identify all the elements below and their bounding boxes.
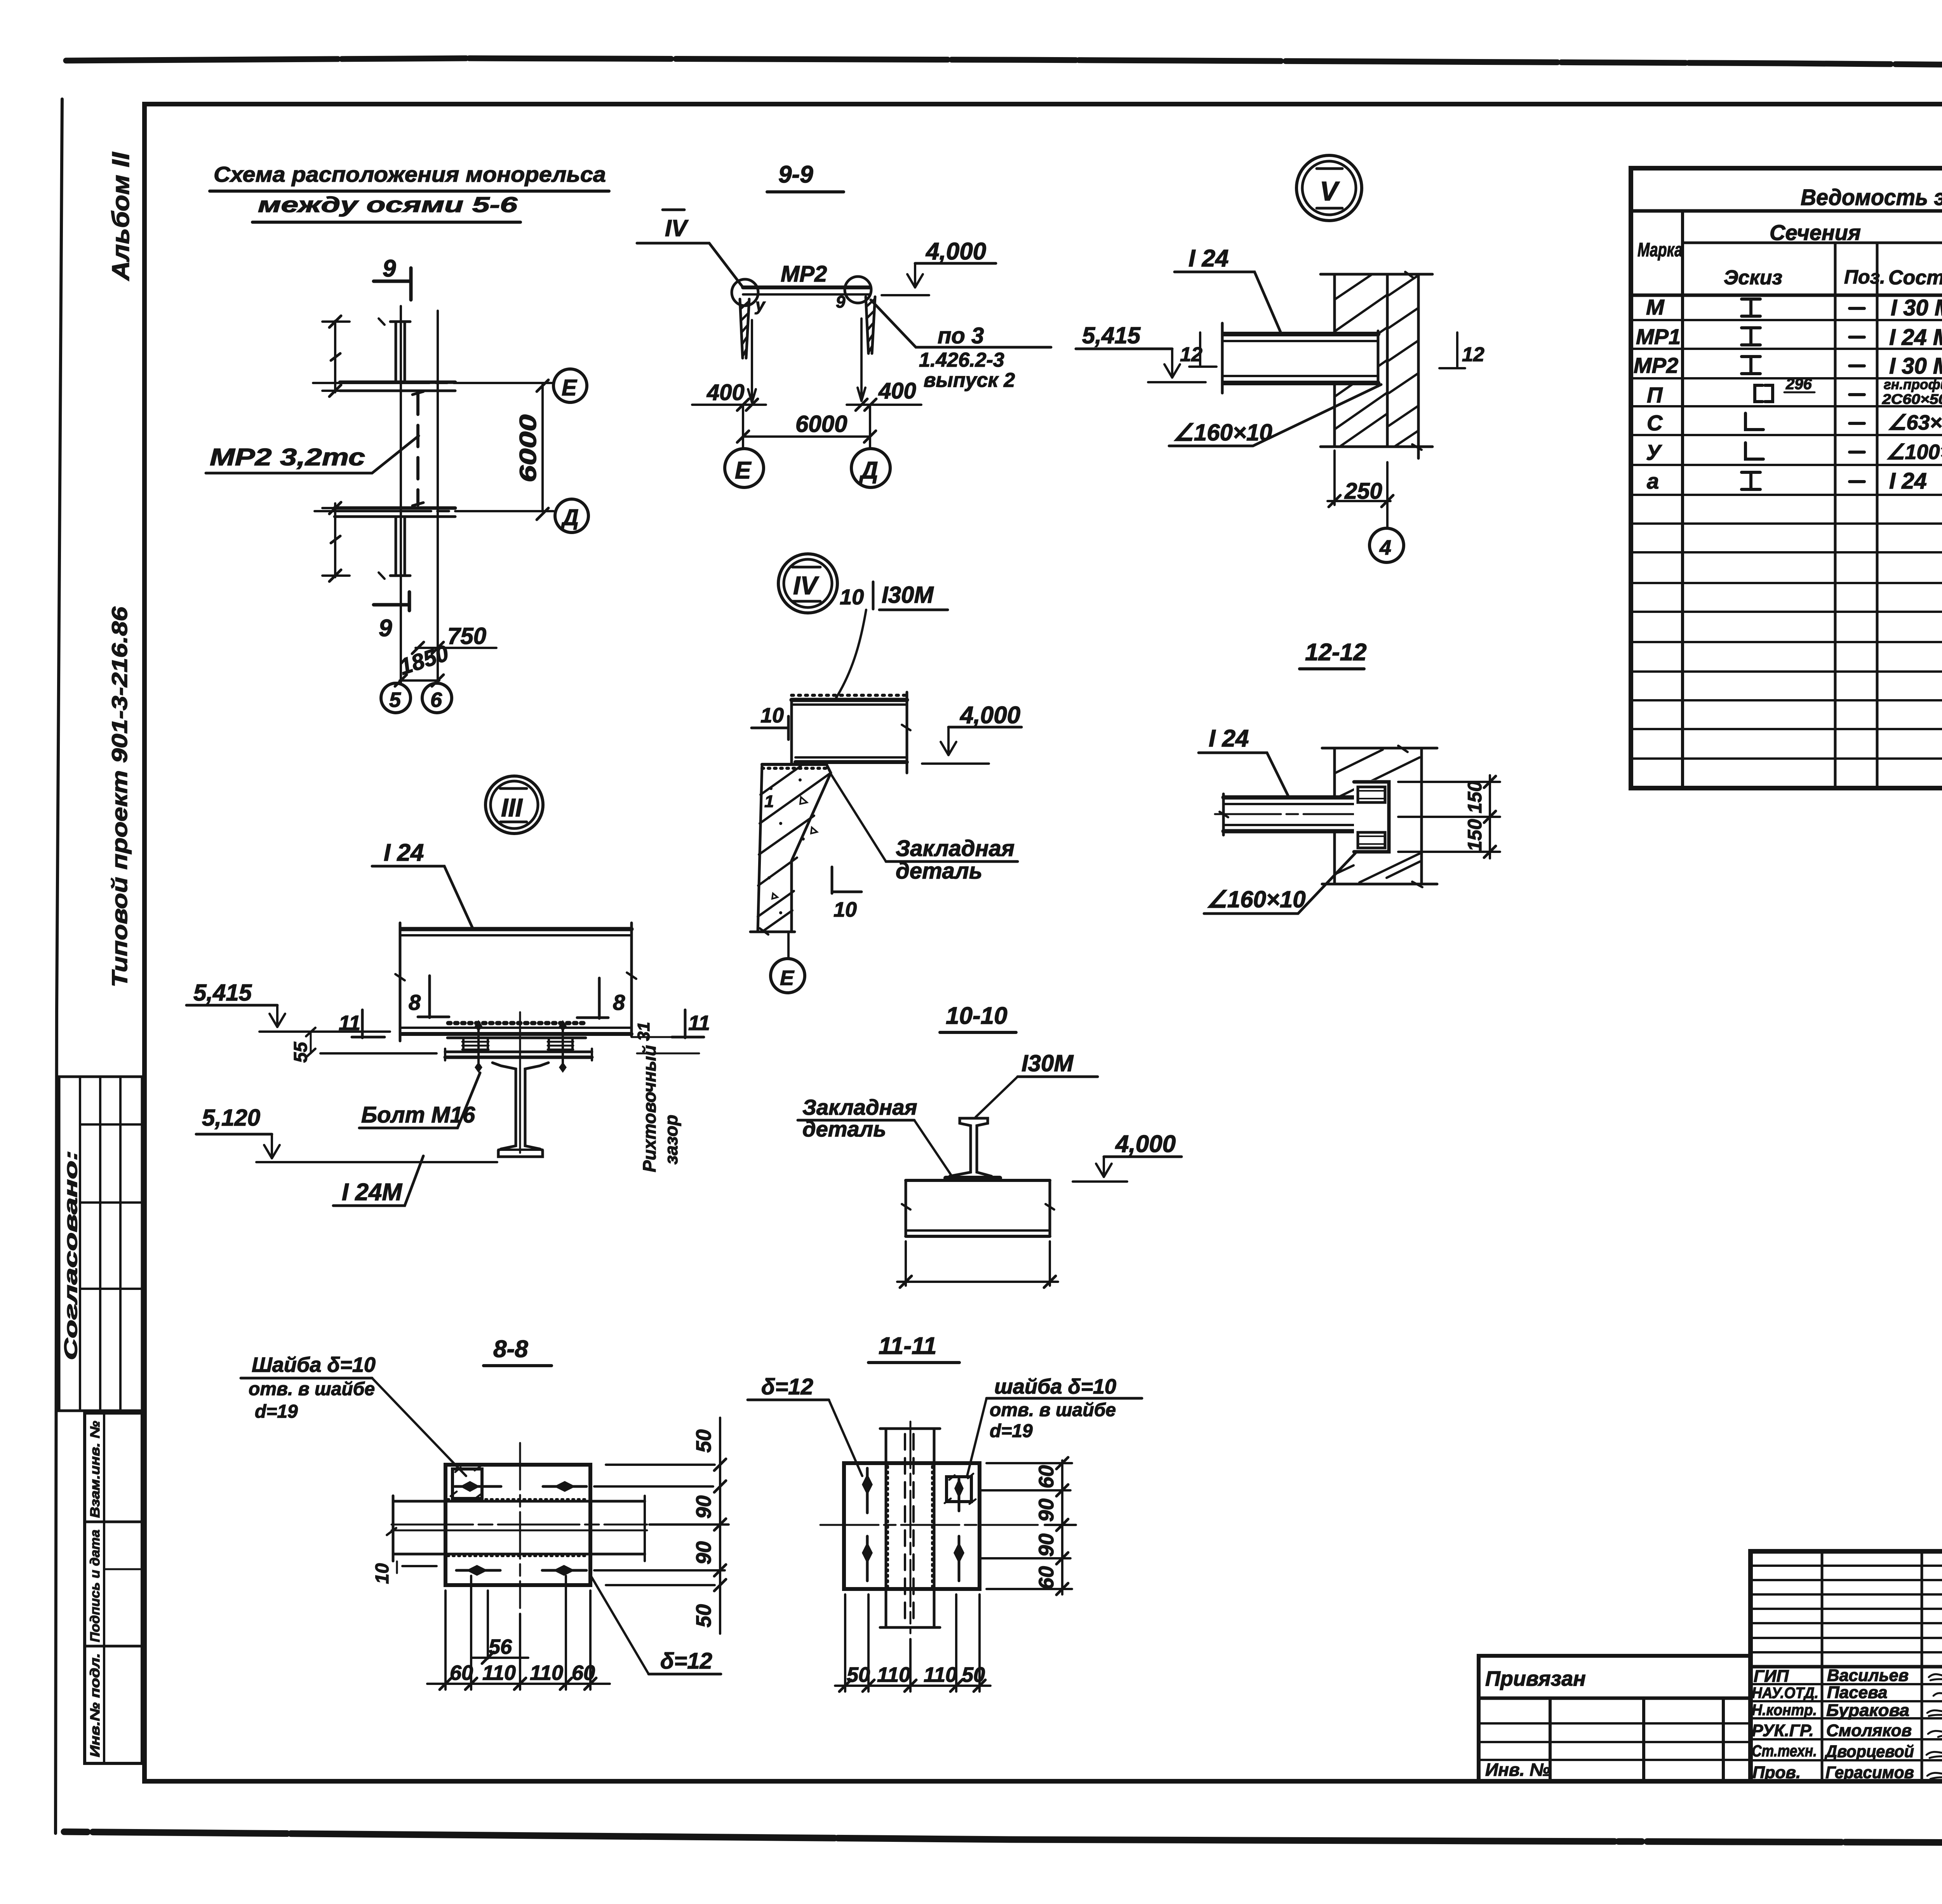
12-12: label угол 160x10 — [1204, 853, 1356, 914]
scan paper left edge — [56, 99, 62, 1833]
svg-text:60: 60 — [1035, 1566, 1058, 1589]
svg-text:МР2: МР2 — [1634, 353, 1678, 378]
title block: signatures squiggles — [1926, 1673, 1942, 1779]
table Ведомость элементов: outer border — [1631, 168, 1942, 788]
10-10: label Закладная деталь — [798, 1095, 951, 1175]
svg-text:10: 10 — [840, 585, 864, 609]
12-12: embedded plate with bolts — [1354, 780, 1391, 854]
svg-text:Е: Е — [780, 966, 795, 990]
8-8: label д=12 — [590, 1575, 721, 1674]
plan: section mark 9 top — [374, 255, 411, 300]
svg-text:50: 50 — [847, 1663, 870, 1686]
detail V: label I 24 — [1175, 245, 1282, 335]
title block: main rows — [1751, 1684, 1942, 1760]
plan: monorail dashed line МР2 — [412, 392, 423, 506]
svg-text:Герасимов: Герасимов — [1825, 1763, 1914, 1782]
8-8: bottom extension lines — [445, 1576, 590, 1690]
8-8: plate plan — [445, 1465, 590, 1585]
detail V: weld mark 12 left — [1180, 332, 1216, 367]
svg-text:Схема расположения монорельс: Схема расположения монорельса — [214, 162, 606, 186]
svg-text:110: 110 — [924, 1663, 957, 1686]
svg-text:8: 8 — [409, 990, 421, 1015]
margin label Инв.№ подл. — [88, 1653, 103, 1757]
title block: names — [1824, 1666, 1914, 1782]
plan: axis circle 5 — [381, 683, 411, 713]
plan: axis Е line and circle — [313, 369, 587, 402]
title block: outer border — [1751, 1551, 1942, 1781]
table: row П — [1647, 376, 1942, 409]
detail III: label Болт М16 — [359, 1073, 480, 1128]
9-9: beam МР2 — [743, 261, 870, 294]
svg-text:90: 90 — [1035, 1533, 1058, 1557]
svg-text:у: у — [755, 296, 766, 315]
plan: section mark 9 bottom — [374, 592, 409, 642]
svg-text:Альбом II: Альбом II — [108, 151, 134, 281]
detail III: beam I24 elevation — [395, 923, 636, 1041]
plan: 6000 dimension vertical — [515, 380, 548, 520]
8-8: bolt symbols — [455, 1481, 586, 1576]
margin text Альбом II — [108, 151, 134, 281]
12-12: wall hatched — [1322, 746, 1437, 887]
svg-text:Привязан: Привязан — [1485, 1667, 1586, 1690]
detail IV: embedded plate dotted at top — [762, 767, 827, 770]
plan: top column section — [340, 318, 455, 391]
svg-text:У: У — [1646, 440, 1662, 465]
svg-text:I 24: I 24 — [1189, 245, 1229, 272]
svg-text:I 24: I 24 — [1209, 725, 1249, 752]
svg-text:Васильев: Васильев — [1827, 1666, 1909, 1685]
12-12: beam I24 horizontal — [1215, 794, 1358, 835]
svg-text:4: 4 — [1379, 536, 1391, 559]
svg-text:6000: 6000 — [515, 414, 541, 482]
table: row а — [1647, 468, 1942, 494]
10-10: label I30М — [976, 1050, 1098, 1117]
svg-text:110: 110 — [530, 1661, 563, 1685]
svg-text:Д: Д — [859, 457, 878, 484]
11-11: label д=12 — [748, 1374, 862, 1476]
8-8: beam flange strip horizontal — [387, 1496, 647, 1561]
plan: 750 dimension — [412, 623, 496, 654]
detail IV: concrete corbel outline — [750, 764, 831, 935]
svg-text:Буракова: Буракова — [1826, 1701, 1909, 1720]
svg-text:9-9: 9-9 — [778, 161, 813, 188]
detail III: label I 24М — [333, 1156, 423, 1206]
table: row У — [1646, 440, 1942, 465]
detail IV: axis circle Е — [771, 932, 805, 993]
table: row С — [1647, 411, 1942, 435]
svg-text:60: 60 — [1035, 1465, 1058, 1488]
svg-text:I 30 М.: I 30 М. — [1891, 295, 1942, 320]
svg-text:ГИП: ГИП — [1754, 1667, 1789, 1686]
svg-text:Пров.: Пров. — [1752, 1763, 1801, 1782]
svg-text:5: 5 — [389, 688, 401, 712]
svg-text:d=19: d=19 — [990, 1421, 1033, 1441]
svg-text:9: 9 — [379, 615, 392, 642]
svg-text:12: 12 — [1462, 343, 1484, 366]
detail IV: concrete hatching — [758, 766, 830, 932]
svg-text:5,120: 5,120 — [202, 1105, 260, 1131]
8-8: vertical centerline of plate — [519, 1443, 521, 1608]
detail V: dim 250 — [1328, 451, 1393, 507]
svg-text:Сечения: Сечения — [1770, 220, 1861, 245]
svg-text:10: 10 — [372, 1563, 393, 1584]
detail V: axis circle 4 — [1369, 505, 1404, 562]
9-9: dim 6000 — [737, 405, 876, 447]
svg-text:МР2: МР2 — [781, 261, 827, 287]
svg-text:отв. в шайбе: отв. в шайбе — [249, 1379, 375, 1399]
scan paper bottom edge — [64, 1832, 1942, 1844]
table: title text — [1798, 185, 1942, 211]
svg-text:I 24: I 24 — [384, 839, 424, 866]
svg-text:∠100×7: ∠100×7 — [1886, 440, 1942, 464]
svg-text:Смоляков: Смоляков — [1826, 1721, 1912, 1740]
plan: axis 5 line — [400, 306, 402, 683]
svg-text:90: 90 — [692, 1541, 715, 1565]
detail V: weld mark 12 right — [1439, 332, 1484, 368]
svg-text:90: 90 — [692, 1495, 715, 1519]
svg-text:I 24: I 24 — [1889, 468, 1927, 494]
svg-text:выпуск 2: выпуск 2 — [924, 369, 1015, 392]
svg-text:между осями 5-6: между осями 5-6 — [258, 192, 518, 217]
plan: axis Д line and circle — [315, 499, 588, 533]
detail III: section mark 8 left — [409, 976, 449, 1018]
svg-text:I 24 М: I 24 М — [1889, 325, 1942, 350]
svg-text:П: П — [1647, 383, 1663, 407]
table: header texts — [1637, 220, 1942, 293]
8-8: dim 56 — [472, 1635, 528, 1664]
svg-text:Закладная: Закладная — [802, 1095, 917, 1119]
svg-text:31: 31 — [634, 1022, 653, 1041]
table: row МР1 — [1636, 324, 1942, 350]
svg-text:60: 60 — [572, 1661, 595, 1685]
svg-text:шайба δ=10: шайба δ=10 — [994, 1375, 1116, 1398]
svg-text:110: 110 — [877, 1663, 910, 1686]
8-8: weld serration on flange edges — [447, 1499, 589, 1556]
8-8: dim 10 left — [372, 1561, 437, 1584]
svg-text:Ведомость элементов: Ведомость элементов — [1801, 185, 1942, 210]
svg-text:М: М — [1646, 295, 1665, 319]
svg-text:60: 60 — [450, 1661, 473, 1685]
title block: role labels — [1752, 1667, 1818, 1782]
svg-text:Марка: Марка — [1637, 239, 1683, 261]
svg-text:III: III — [501, 793, 523, 822]
detail IV: section mark 10 top-left — [752, 704, 788, 740]
svg-text:Д: Д — [560, 505, 579, 530]
Привязан block — [1479, 1656, 1751, 1781]
svg-text:400: 400 — [706, 380, 745, 405]
svg-text:110: 110 — [482, 1661, 516, 1685]
svg-text:11-11: 11-11 — [879, 1333, 936, 1359]
9-9: axis circle Е — [725, 449, 764, 487]
detail III: section mark 8 right — [577, 978, 625, 1018]
svg-text:∠160×10: ∠160×10 — [1173, 419, 1272, 446]
svg-text:Эскиз: Эскиз — [1724, 266, 1782, 289]
detail marker V circle — [1296, 155, 1362, 221]
detail III: label I 24 — [372, 839, 473, 929]
10-10: slab bottom dimension — [897, 1241, 1058, 1288]
section 12-12 title — [1300, 639, 1367, 669]
svg-text:1.426.2-3: 1.426.2-3 — [919, 349, 1004, 371]
svg-text:55: 55 — [291, 1041, 311, 1063]
detail III: dim 31 rotated — [634, 1022, 699, 1053]
svg-text:Ст.техн.: Ст.техн. — [1752, 1742, 1817, 1760]
svg-text:150: 150 — [1464, 781, 1486, 813]
11-11: dims 50 110 110 50 — [835, 1663, 990, 1692]
svg-text:150: 150 — [1464, 819, 1486, 851]
svg-text:по 3: по 3 — [938, 323, 984, 348]
11-11: bottom extension lines — [845, 1594, 980, 1692]
margin label Подпись и дата — [88, 1530, 103, 1642]
9-9: left extension arrow — [748, 320, 756, 402]
svg-text:Н.контр.: Н.контр. — [1752, 1702, 1817, 1719]
svg-text:8: 8 — [613, 990, 625, 1015]
11-11: right extension lines and dims 60 90 90 60 — [979, 1457, 1076, 1595]
svg-text:δ=12: δ=12 — [761, 1374, 813, 1399]
svg-text:4,000: 4,000 — [925, 238, 986, 265]
svg-text:НАУ.ОТД.: НАУ.ОТД. — [1752, 1685, 1818, 1702]
svg-text:296: 296 — [1785, 376, 1812, 393]
svg-text:50: 50 — [692, 1604, 715, 1627]
12-12: label I 24 — [1199, 725, 1289, 799]
plan: 1850 dimension — [395, 640, 452, 686]
svg-text:90: 90 — [1035, 1498, 1058, 1522]
9-9: axis circle Д — [851, 449, 890, 487]
10-10: elevation 4,000 — [1073, 1131, 1182, 1182]
detail marker III circle — [486, 776, 543, 834]
10-10: rail I30М cross-section — [950, 1118, 991, 1180]
11-11: bolt symbols vertical — [862, 1468, 964, 1581]
plan: bottom column section — [334, 508, 455, 579]
svg-text:9: 9 — [836, 292, 846, 312]
svg-text:10: 10 — [834, 898, 857, 921]
svg-text:Поз.: Поз. — [1844, 266, 1885, 288]
svg-text:Инв.№ подл.: Инв.№ подл. — [88, 1653, 103, 1757]
section 10-10 title — [940, 1002, 1016, 1032]
svg-text:Инв. №: Инв. № — [1485, 1760, 1550, 1780]
svg-text:МР2 3,2тс: МР2 3,2тс — [210, 444, 365, 471]
table: row МР2 — [1634, 353, 1942, 379]
detail marker IV circle — [778, 554, 837, 613]
9-9: dim 400 right — [847, 378, 921, 411]
detail III: vertical text Рихтовочный зазор — [639, 1045, 681, 1177]
svg-text:Состав: Состав — [1888, 266, 1942, 289]
11-11: column strip vertical — [880, 1422, 940, 1633]
svg-text:I 30 М: I 30 М — [1889, 353, 1942, 379]
svg-text:50: 50 — [692, 1429, 715, 1453]
svg-text:50: 50 — [962, 1663, 985, 1686]
plan: bottom section left dimension — [322, 502, 350, 581]
svg-text:Е: Е — [735, 457, 752, 484]
svg-text:РУК.ГР.: РУК.ГР. — [1752, 1721, 1814, 1740]
9-9: detail IV leader label — [637, 210, 743, 287]
9-9: weld circle left with label у — [732, 279, 766, 315]
svg-text:отв. в шайбе: отв. в шайбе — [990, 1400, 1116, 1420]
detail V: elevation 5,415 — [1076, 322, 1206, 382]
9-9: elevation 4,000 — [882, 238, 996, 295]
svg-text:8-8: 8-8 — [493, 1336, 528, 1363]
plan: axis circle 6 — [422, 683, 452, 713]
svg-text:Дворцевой: Дворцевой — [1824, 1742, 1914, 1761]
10-10: slab with embedded plate — [902, 1178, 1054, 1236]
svg-text:∠63×5: ∠63×5 — [1888, 411, 1942, 434]
sheet number box 94 — [144, 64, 1942, 105]
plan: top section left dimension — [322, 316, 350, 397]
8-8: label Шайба д=10 отв. в шайбе d=19 — [241, 1353, 466, 1476]
plan: axis 6 line — [437, 311, 439, 683]
svg-text:Закладная: Закладная — [896, 836, 1015, 861]
11-11: plate plan — [844, 1463, 980, 1589]
detail IV: section mark 10 with I30М — [836, 582, 948, 698]
svg-text:Типовой проект 901-3-216.86: Типовой проект 901-3-216.86 — [107, 606, 132, 987]
svg-text:750: 750 — [447, 623, 486, 649]
table: row lines — [1631, 320, 1942, 759]
9-9: leader по 3 1.426.2-3 выпуск 2 — [871, 300, 1051, 392]
detail V: label угол 160x10 — [1169, 385, 1381, 446]
margin label Взам.инв.№ — [88, 1421, 103, 1518]
detail III: dotted weld row on bottom flange — [448, 1021, 584, 1025]
svg-text:Согласовано:: Согласовано: — [61, 1150, 81, 1360]
svg-text:МР1: МР1 — [1636, 324, 1681, 349]
svg-text:V: V — [1320, 176, 1340, 206]
detail III: bolts М16 with diamond heads — [475, 1020, 567, 1073]
svg-text:Е: Е — [562, 375, 578, 400]
detail III: section mark 11 right — [632, 1010, 710, 1038]
svg-text:∠160×10: ∠160×10 — [1206, 886, 1306, 912]
detail III: elevation 5,120 — [196, 1105, 497, 1162]
detail III: section mark 11 left — [339, 1010, 385, 1038]
svg-text:I 24М: I 24М — [342, 1179, 402, 1206]
section 8-8 title — [484, 1336, 552, 1366]
svg-text:С: С — [1647, 411, 1663, 435]
12-12: dims 150 150 — [1398, 775, 1500, 858]
detail III: connection plates and shims — [445, 1038, 592, 1060]
svg-text:а: а — [1647, 469, 1659, 493]
lower stamp box Взам.инв./Подпись/Инв. — [85, 1413, 142, 1763]
scan paper top edge — [66, 58, 1942, 69]
detail V: wall hatched — [1321, 272, 1432, 458]
svg-text:11: 11 — [688, 1011, 710, 1035]
svg-text:гн.профиль: гн.профиль — [1884, 376, 1942, 392]
9-9: weld circle right with label 9 — [836, 277, 871, 312]
detail III: elevation 5,415 — [186, 980, 390, 1032]
detail IV: beam I30М elevation — [792, 692, 910, 773]
svg-text:I30М: I30М — [882, 582, 934, 608]
svg-text:δ=12: δ=12 — [660, 1648, 712, 1674]
svg-text:зазор: зазор — [661, 1115, 681, 1164]
svg-text:d=19: d=19 — [255, 1401, 298, 1422]
svg-text:Шайба δ=10: Шайба δ=10 — [252, 1353, 376, 1377]
detail III: rail I24М below — [492, 1012, 548, 1157]
detail IV: elevation 4,000 — [922, 702, 1021, 764]
table: header grid — [1631, 211, 1942, 787]
title block: upper small rows grid — [1751, 1551, 1942, 1781]
Согласовано stamp box — [59, 1077, 142, 1411]
11-11: label шайба д=10 отв. в шайбе d=19 — [967, 1375, 1142, 1476]
plan: leader МР2 3,2тс — [206, 436, 419, 473]
svg-text:I30М: I30М — [1021, 1050, 1074, 1076]
title между осями 5-6 — [252, 192, 520, 222]
svg-text:11: 11 — [339, 1011, 360, 1035]
svg-text:Рихтовочный: Рихтовочный — [639, 1045, 660, 1172]
svg-text:4,000: 4,000 — [1115, 1131, 1176, 1157]
svg-text:4,000: 4,000 — [959, 702, 1020, 729]
detail IV: section mark 10 bottom — [832, 867, 861, 921]
svg-text:2С60×50×3: 2С60×50×3 — [1882, 391, 1942, 407]
11-11: weld serration on strip edges — [888, 1466, 932, 1587]
svg-text:5,415: 5,415 — [193, 980, 252, 1006]
9-9: right column hatched — [866, 297, 875, 353]
svg-text:Взам.инв. №: Взам.инв. № — [88, 1421, 103, 1518]
svg-text:IV: IV — [793, 571, 819, 600]
margin text Согласовано: — [61, 1150, 81, 1360]
svg-text:9: 9 — [383, 255, 396, 282]
svg-text:Пасева: Пасева — [1827, 1683, 1888, 1702]
8-8: right extension lines and dims 50 90 90 50 — [594, 1418, 729, 1634]
svg-text:400: 400 — [878, 378, 916, 404]
8-8: dims 60 110 110 60 — [427, 1661, 610, 1690]
margin text Типовой проект 901-3-216.86 — [107, 606, 132, 987]
9-9: dim 400 left — [692, 380, 766, 411]
svg-text:6000: 6000 — [795, 411, 847, 437]
11-11: washer at top-right bolt — [945, 1474, 976, 1504]
11-11: plate centerline horizontal — [820, 1524, 1038, 1526]
section 9-9 title — [767, 161, 844, 192]
svg-text:6: 6 — [430, 688, 442, 712]
9-9: right extension arrow — [858, 318, 865, 401]
detail V: beam I24 — [1222, 323, 1379, 393]
svg-text:5,415: 5,415 — [1082, 322, 1141, 348]
8-8: washer at top-left bolt — [451, 1466, 482, 1498]
9-9: left column hatched — [740, 299, 749, 358]
svg-text:12-12: 12-12 — [1305, 639, 1367, 666]
svg-text:1: 1 — [764, 792, 774, 811]
title Схема расположения монорельса — [210, 162, 609, 191]
svg-text:IV: IV — [665, 215, 689, 241]
svg-text:10-10: 10-10 — [946, 1002, 1008, 1029]
detail IV: label Закладная деталь — [831, 774, 1018, 884]
table: row М — [1646, 295, 1942, 320]
section 11-11 title — [868, 1333, 959, 1363]
svg-text:Подпись и дата: Подпись и дата — [88, 1530, 103, 1642]
detail III: dim 55 — [291, 1028, 437, 1063]
svg-text:10: 10 — [760, 704, 784, 727]
